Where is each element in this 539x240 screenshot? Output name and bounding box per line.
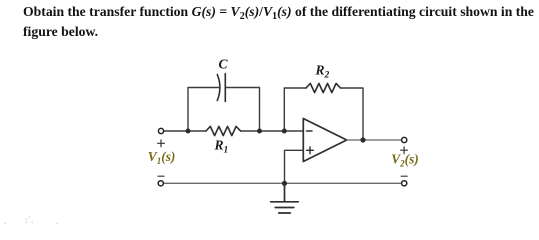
input terminal top (V1 +) bbox=[158, 128, 163, 133]
capacitor C bbox=[217, 74, 225, 102]
plus sign at V1 terminal bbox=[158, 140, 165, 147]
faint cropped text at bottom edge bbox=[4, 216, 6, 226]
wire: op-amp output to output terminal bbox=[347, 139, 402, 141]
wire: capacitor branch left vertical bbox=[188, 88, 219, 132]
wire: R2 branch (feedback) left vertical and leads bbox=[284, 88, 363, 140]
svg-text:R2: R2 bbox=[315, 63, 330, 81]
wire: non-inverting input to ground rail bbox=[285, 150, 304, 183]
junction node at ground rail bbox=[282, 181, 287, 186]
junction node at R1/C right bbox=[257, 129, 262, 134]
plus sign at V2 terminal bbox=[401, 147, 408, 154]
junction node at R1/C left bbox=[186, 129, 191, 134]
wire: capacitor branch right vertical bbox=[226, 88, 259, 132]
svg-text:V1(s): V1(s) bbox=[148, 149, 176, 166]
minus sign at V2 bottom terminal bbox=[401, 175, 407, 177]
minus sign at V1 bottom terminal bbox=[158, 175, 164, 177]
resistor R1 bbox=[206, 126, 241, 135]
wire: bottom rail bbox=[164, 182, 401, 184]
junction node at output / R2 bbox=[360, 137, 365, 142]
output terminal bottom (V2 -) bbox=[402, 181, 407, 186]
wire: main input rail from input terminal to op-amp inverting input bbox=[164, 130, 303, 132]
output terminal top (V2 +) bbox=[402, 137, 407, 142]
op-amp minus pin mark bbox=[307, 130, 313, 132]
junction node at inverting input / R2 bbox=[282, 129, 287, 134]
problem statement text bbox=[23, 2, 534, 44]
resistor R2 bbox=[306, 83, 341, 92]
op-amp plus pin mark bbox=[307, 147, 314, 154]
input terminal bottom (V1 -) bbox=[158, 181, 163, 186]
svg-text:C: C bbox=[219, 57, 229, 72]
op-amp U1 bbox=[303, 119, 346, 162]
ground bbox=[271, 183, 299, 213]
svg-text:V2(s): V2(s) bbox=[391, 152, 419, 169]
svg-text:R1: R1 bbox=[214, 138, 229, 156]
